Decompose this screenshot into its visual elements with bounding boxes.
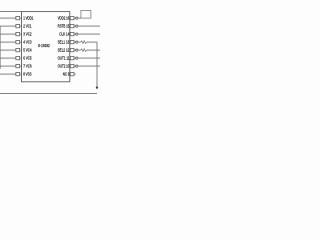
wire right rail <box>96 42 98 87</box>
wire VDD1 top feed <box>0 11 22 13</box>
svg-text:1 VDD1: 1 VDD1 <box>23 16 33 21</box>
wire OUT1 right <box>78 57 100 59</box>
node pin12 circle <box>76 49 78 51</box>
svg-text:3 VC2: 3 VC2 <box>23 32 32 37</box>
component box on VDD2 wire <box>81 11 91 19</box>
svg-text:NC 9: NC 9 <box>63 72 70 77</box>
wire bottom <box>0 92 97 94</box>
pin 16 stub <box>70 16 74 19</box>
svg-text:OUT1 11: OUT1 11 <box>58 56 70 61</box>
background <box>0 0 100 100</box>
svg-text:S-19192: S-19192 <box>38 43 50 48</box>
node pin10 circle <box>76 65 78 67</box>
node pin14 circle <box>76 33 78 35</box>
pin 12 stub <box>70 48 74 51</box>
wire VDD2 right <box>78 17 82 19</box>
pin 4 stub <box>16 40 20 43</box>
wire SEL1 right <box>78 41 81 43</box>
pin 6 stub <box>16 56 20 59</box>
svg-text:SEL2 12: SEL2 12 <box>58 48 70 53</box>
svg-text:4 VC3: 4 VC3 <box>23 40 32 45</box>
pin 9 stub <box>70 72 74 75</box>
wire CLK right <box>78 33 100 35</box>
wire pin4 left <box>0 41 16 43</box>
wire pin3 left <box>0 33 16 35</box>
node junction dot <box>96 86 98 88</box>
svg-text:2 VC1: 2 VC1 <box>23 24 32 29</box>
svg-text:RSTB 15: RSTB 15 <box>58 24 70 29</box>
svg-text:OUT2 10: OUT2 10 <box>58 64 70 69</box>
wire pin8 left <box>0 73 16 75</box>
pin 11 stub <box>70 56 74 59</box>
pin 15 stub <box>70 24 74 27</box>
wire SEL2 right <box>78 49 81 51</box>
wire left border bus <box>0 26 1 69</box>
op-amp U1 S-19192 IC body <box>22 12 70 82</box>
node pin11 circle <box>76 57 78 59</box>
pin 13 stub <box>70 40 74 43</box>
svg-text:6 VC5: 6 VC5 <box>23 56 32 61</box>
svg-text:VDD2 16: VDD2 16 <box>58 16 70 21</box>
node pin16 circle <box>76 17 78 19</box>
pin 5 stub <box>16 48 20 51</box>
svg-text:SEL1 13: SEL1 13 <box>58 40 70 45</box>
svg-text:CLK 14: CLK 14 <box>59 32 69 37</box>
pin 14 stub <box>70 32 74 35</box>
svg-text:5 VC4: 5 VC4 <box>23 48 32 53</box>
wire OUT2 right <box>78 65 100 67</box>
node pin13 circle <box>76 41 78 43</box>
node pin15 circle <box>76 25 78 27</box>
pin 2 stub <box>16 24 20 27</box>
svg-text:8 VSS: 8 VSS <box>23 72 31 77</box>
wire pin5 left <box>0 49 16 51</box>
resistor R2 on SEL2 <box>81 49 87 52</box>
wire pin2 left <box>0 25 16 27</box>
pin 1 stub <box>16 16 20 19</box>
pin 8 stub <box>16 72 20 75</box>
wire RSTB right <box>78 25 100 27</box>
wire pin6 left <box>0 57 16 59</box>
svg-text:7 VC6: 7 VC6 <box>23 64 32 69</box>
resistor R1 on SEL1 <box>81 41 87 44</box>
wire pin1 left <box>0 17 16 19</box>
pin 3 stub <box>16 32 20 35</box>
wire pin7 left <box>0 65 16 67</box>
pin 10 stub <box>70 64 74 67</box>
pin 7 stub <box>16 64 20 67</box>
